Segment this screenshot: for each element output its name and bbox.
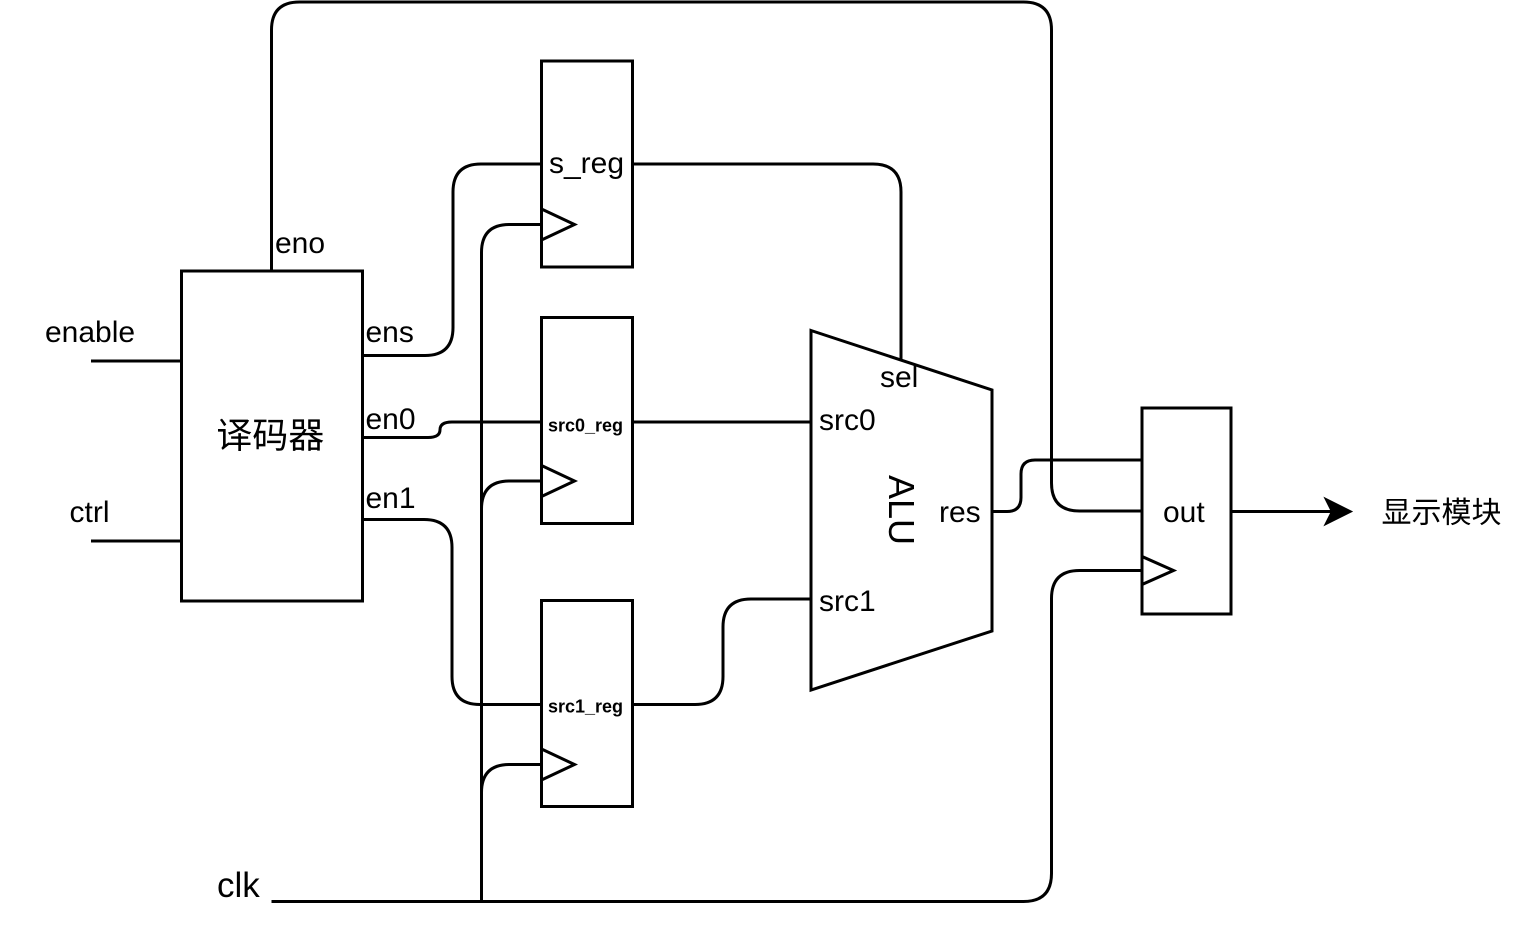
svg-text:src0: src0 [819, 404, 876, 437]
svg-text:out: out [1163, 496, 1205, 529]
svg-text:clk: clk [217, 866, 260, 905]
svg-text:ctrl: ctrl [70, 496, 110, 529]
svg-text:en0: en0 [366, 403, 416, 436]
svg-text:s_reg: s_reg [549, 147, 624, 180]
svg-text:res: res [939, 496, 981, 529]
svg-text:ens: ens [366, 316, 414, 349]
svg-text:en1: en1 [366, 482, 416, 515]
svg-text:enable: enable [45, 316, 135, 349]
svg-text:src0_reg: src0_reg [548, 416, 623, 436]
svg-text:ALU: ALU [881, 475, 922, 545]
svg-text:src1: src1 [819, 585, 876, 618]
svg-text:sel: sel [880, 361, 918, 394]
svg-text:src1_reg: src1_reg [548, 697, 623, 717]
svg-text:eno: eno [275, 227, 325, 260]
